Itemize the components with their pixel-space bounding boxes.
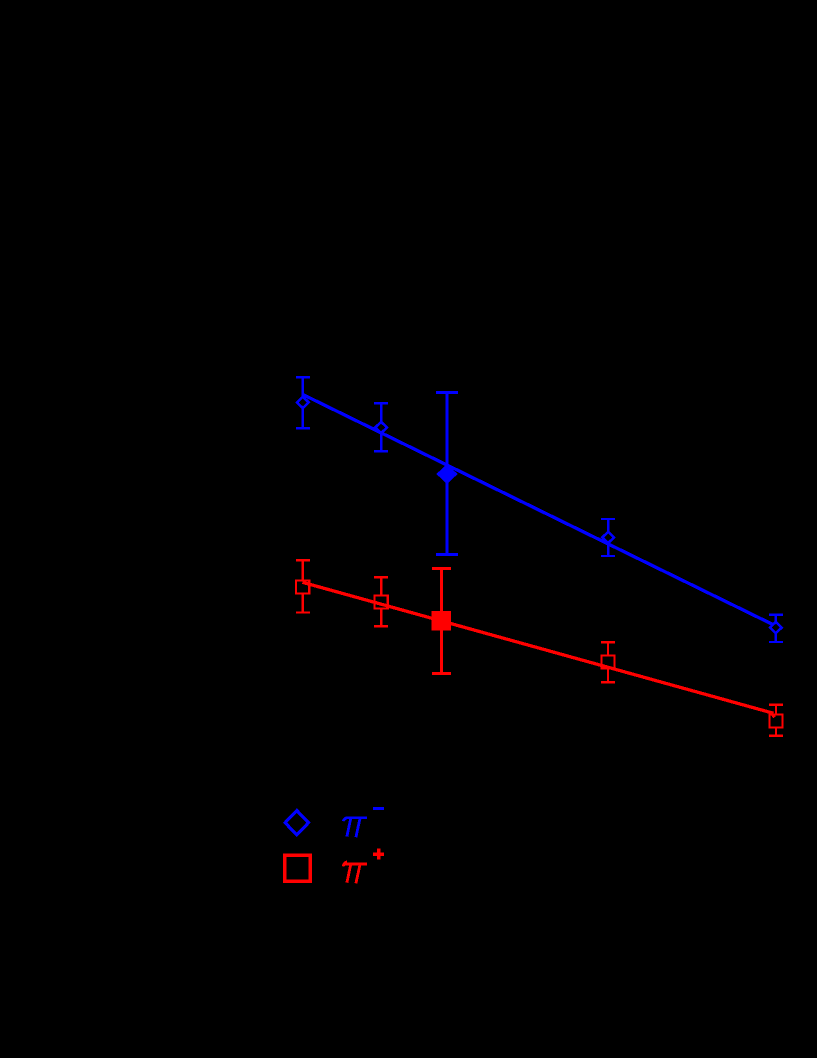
error bar pi-plus point 2 (374, 577, 388, 626)
marker pi-plus point 1 (open square) (296, 580, 309, 593)
marker pi-minus point 1 (open diamond) (297, 397, 309, 408)
error bar pi-minus point 2 (374, 403, 388, 451)
marker pi-minus point 2 (open diamond) (375, 422, 387, 433)
error bar pi-plus point 5 (769, 705, 783, 736)
legend marker open square (pi-plus) (285, 855, 311, 881)
marker pi-minus point 3 (filled diamond) (436, 464, 457, 484)
error bar pi-minus point 1 (296, 377, 310, 428)
marker pi-plus point 4 (open square) (601, 655, 614, 668)
error bar pi-plus point 4 (601, 642, 615, 682)
error bar pi-minus point 4 (601, 519, 615, 556)
marker pi-plus point 2 (open square) (375, 595, 388, 608)
fit line pi-minus (303, 395, 773, 625)
marker pi-plus point 3 (filled square) (432, 611, 452, 631)
marker pi-minus point 4 (open diamond) (602, 532, 614, 543)
error bar pi-minus point 3 (filled) (436, 393, 458, 555)
marker pi-minus point 5 (open diamond) (770, 622, 782, 633)
error bar pi-plus point 3 (filled) (432, 569, 451, 674)
fit line pi-plus (303, 582, 774, 713)
fit line pi-plus end tip (772, 714, 775, 717)
legend label pi-minus (343, 809, 384, 838)
error bar pi-minus point 5 (769, 615, 783, 642)
legend marker open diamond (pi-minus) (285, 811, 308, 835)
marker pi-plus point 5 (open square) (770, 714, 783, 727)
error bar pi-plus point 1 (296, 560, 310, 612)
legend label pi-plus (343, 848, 384, 883)
